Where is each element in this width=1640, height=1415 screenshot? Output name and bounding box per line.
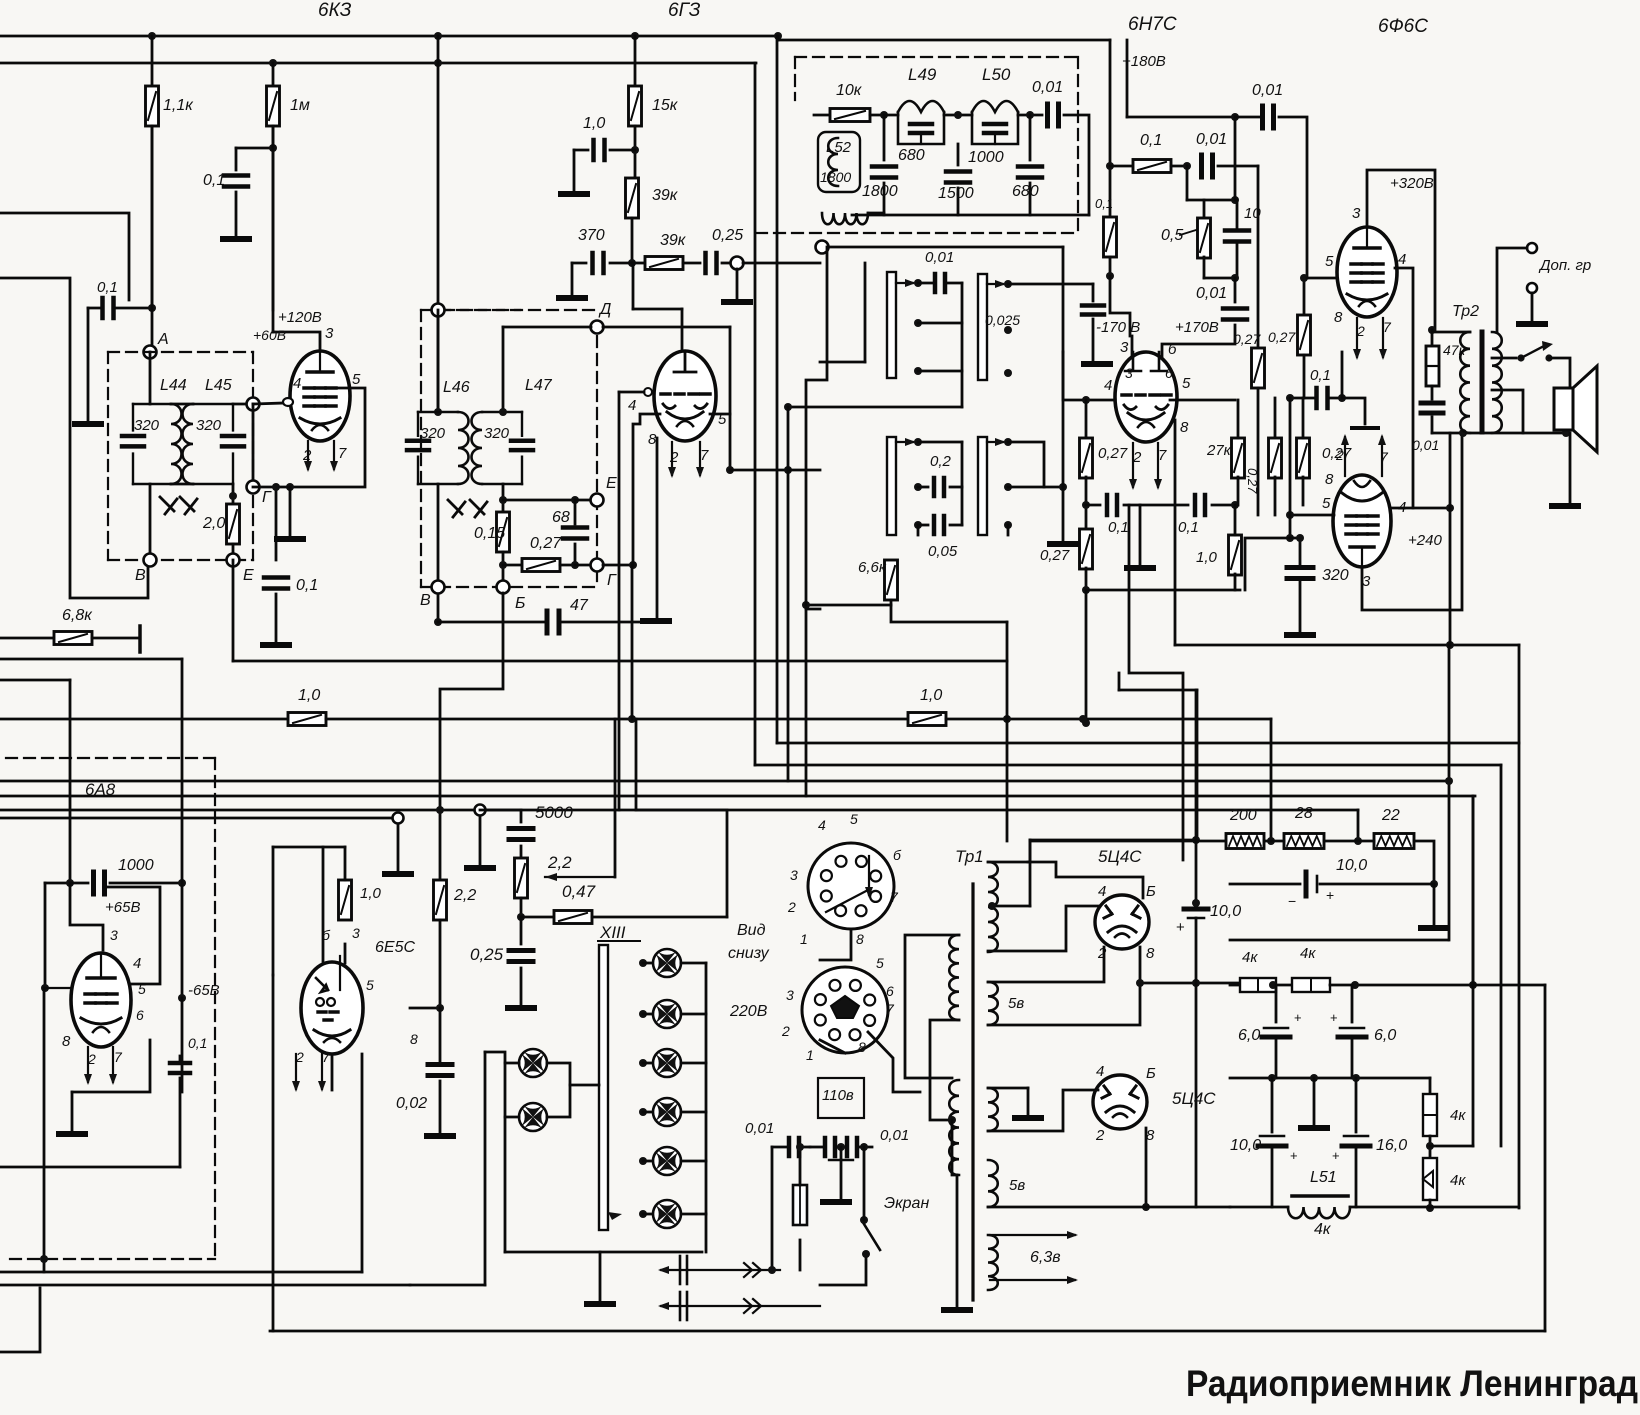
rectifier V9 5Ts4S lower [1093,1075,1147,1129]
node B2b [497,581,510,594]
cathode cap 320 [1287,568,1313,579]
svg-text:Г: Г [262,489,272,506]
capacitor 0,01 out [1018,114,1042,117]
svg-text:1м: 1м [290,97,310,114]
V9 anode wire and ground [988,1087,1028,1090]
cathode arrows V6 [84,1047,92,1085]
switch wafer 1b [978,274,987,380]
6E5S wires top [273,846,345,849]
V8 filament wires [988,947,1104,982]
long verticals bottom-left [43,988,46,1272]
tube 6F6S V5 lower (inverted) [1333,475,1391,567]
wire corner down to divider [1270,719,1273,841]
resistor 4k v1 [1429,1078,1432,1094]
node row y1078 [1230,1077,1430,1080]
svg-text:68: 68 [552,509,570,526]
svg-text:6Е5С: 6Е5С [375,939,415,956]
node G2 [591,559,604,572]
node A1 [151,126,154,352]
node V1 [149,484,152,560]
svg-text:8: 8 [1334,309,1343,326]
wire bottom stub [0,1288,40,1352]
wire +240 column [1446,504,1454,512]
svg-text:3: 3 [786,987,794,1003]
lower link wire [788,406,962,409]
dashed AF line [6,757,215,759]
svg-text:6,0: 6,0 [1374,1027,1396,1044]
electrolytic 10,0 h [1230,883,1300,886]
svg-text:+: + [1332,1148,1340,1163]
svg-text:5: 5 [1182,375,1191,392]
svg-text:4: 4 [133,955,141,972]
wire 22 down [1414,841,1434,884]
svg-text:L50: L50 [982,65,1011,84]
svg-text:Радиоприемник Ленинград: Радиоприемник Ленинград [1186,1363,1638,1404]
svg-text:200: 200 [1229,807,1257,824]
switch wafer 1a [887,272,896,378]
svg-text:5: 5 [352,371,361,388]
svg-text:+170В: +170В [1175,319,1219,336]
svg-text:Е: Е [606,475,617,492]
tube 6N7S V3 [1115,352,1177,442]
terminal node y810 [475,805,486,816]
svg-text:+: + [1294,1010,1302,1025]
rectifier V8 5Ts4S [1095,895,1149,949]
svg-text:+: + [1330,1010,1338,1025]
wire E1 down [232,560,235,661]
tube 6A8 V6 [71,953,131,1047]
connector plug upper [658,1266,780,1274]
wire y680 stub [0,679,70,682]
resistor 2,2 AF [434,880,447,920]
wire x182 column [181,659,184,998]
svg-text:4к: 4к [1450,1172,1466,1189]
wire G2 to detector line [603,564,633,567]
wire contact bottom [917,525,920,535]
svg-text:Б: Б [1146,1065,1156,1082]
svg-text:320: 320 [196,417,222,434]
svg-text:0,01: 0,01 [880,1127,909,1144]
wire y1008 stub [410,1007,440,1010]
svg-text:+240: +240 [1408,532,1442,549]
node junctions top bus [148,32,156,40]
svg-text:320: 320 [134,417,160,434]
trimmer arrows 2 [448,500,462,514]
svg-text:L47: L47 [525,377,553,394]
dashed divider vertical [214,758,216,1259]
svg-text:6: 6 [136,1007,144,1023]
bottom border line [270,1330,1545,1333]
svg-text:Г: Г [607,572,617,589]
bottom of lamp circuit [505,1251,702,1254]
wire fb left [1245,538,1290,590]
svg-text:3: 3 [110,927,118,943]
svg-text:1,0: 1,0 [298,687,320,704]
svg-text:0,01: 0,01 [1412,437,1439,453]
svg-text:8: 8 [856,931,864,947]
capacitor 0,01 tone [1431,386,1434,399]
resistor 6,8k antenna [0,637,54,640]
V8 anode wires [1030,839,1196,842]
svg-text:220В: 220В [729,1003,768,1020]
wire y659 stub [0,658,182,661]
svg-text:5Ц4С: 5Ц4С [1098,847,1142,866]
svg-text:Б: Б [515,595,525,612]
svg-text:0,01: 0,01 [1032,79,1063,96]
svg-text:5: 5 [850,811,858,827]
trimmer arrows [160,497,174,511]
svg-text:+: + [1176,919,1185,936]
svg-text:4к: 4к [1300,945,1316,962]
resistor 4k v2 [1429,1136,1432,1158]
cathode arrows V4 [1353,318,1361,360]
svg-text:6,0: 6,0 [1238,1027,1260,1044]
grid cap lead tube V5 [1342,398,1365,424]
svg-text:320: 320 [420,425,446,442]
capacitor 1000 [45,882,70,885]
wire left stub y213 [0,213,129,300]
svg-text:6Н7С: 6Н7С [1128,14,1177,35]
node D [591,321,604,334]
svg-text:Экран: Экран [884,1195,929,1212]
switch wafer 2a [887,437,896,535]
svg-text:2: 2 [1335,447,1344,463]
plate load wire pin5 [290,388,365,487]
svg-text:7: 7 [322,1049,331,1065]
capacitor 1800 [883,115,886,160]
grid wire 6N7S [1063,352,1115,400]
pair lamps left [519,1049,547,1077]
wire y590 row [1086,589,1240,592]
wire pin5 plate to x788 [730,469,788,472]
cathode bypass 0,1 [1086,504,1100,507]
dashed box IF transformer 1 [107,352,109,560]
svg-text:5: 5 [1322,495,1331,512]
wire D line [503,326,591,329]
cap 5000 [480,809,521,812]
coupling coil [822,213,868,224]
svg-text:8: 8 [1325,471,1334,488]
svg-text:15к: 15к [652,97,679,114]
svg-text:6: 6 [886,983,894,999]
svg-text:Тр2: Тр2 [1452,303,1479,320]
wire -170V step [1110,276,1130,336]
svg-text:2: 2 [1097,945,1107,962]
svg-text:3: 3 [352,925,360,941]
svg-text:1,1к: 1,1к [163,97,194,114]
capacitor 0,1 fb [1290,397,1316,400]
wire x70 column [69,680,72,883]
svg-text:В: В [420,592,431,609]
potentiometer 2,2 [515,858,528,898]
dashed box IF transformer 2 [420,310,422,587]
coil L47 tank [472,412,534,484]
B+ output wire [1140,982,1240,985]
wire x1342 from top [1341,352,1344,398]
cathode ground V1 [289,487,292,537]
svg-text:39к: 39к [660,232,687,249]
svg-text:680: 680 [898,147,925,164]
contact rows wafer1 [914,319,922,327]
wiper wafer1b [1004,280,1012,288]
svg-text:1000: 1000 [968,149,1004,166]
svg-text:0,01: 0,01 [925,249,954,266]
svg-text:3: 3 [1120,339,1129,356]
wire x45 grid [44,883,47,988]
svg-text:Е: Е [243,567,254,584]
svg-text:2,2: 2,2 [547,853,572,872]
capacitor 1500 [957,144,960,165]
svg-text:10,0: 10,0 [1336,857,1367,874]
resistor 1M [272,63,275,86]
additional speaker terminals [1527,243,1537,253]
svg-text:-170 В: -170 В [1096,319,1140,336]
lamp column feed wire [705,963,708,1214]
node E1 [227,554,240,567]
svg-text:7: 7 [1158,447,1167,464]
capacitor 1,0 screen [631,146,639,154]
svg-text:+120В: +120В [278,309,322,326]
wire line y781 [0,780,1448,783]
node G1 [252,404,255,487]
svg-text:4к: 4к [1314,1221,1332,1238]
svg-text:8: 8 [1146,945,1155,962]
ground mid [1062,487,1065,542]
osc box 6A8 [105,887,160,984]
svg-text:1800: 1800 [862,183,898,200]
grid wire V5 [1290,514,1334,517]
wire AF line y661 [233,660,1007,663]
svg-text:+60В: +60В [253,327,286,343]
svg-text:L51: L51 [1310,1169,1337,1186]
grid wire [253,403,284,404]
resistor 0,27 grid 6F6S-1 [1303,278,1306,315]
selector arrow socket1 [865,856,873,898]
step from 0,25 node [864,263,867,362]
svg-text:4: 4 [1096,1063,1104,1080]
capacitor 0,01 grid2 [1234,278,1237,302]
wire AVC bus top [0,35,778,38]
capacitor 370 [610,262,632,265]
Tr1 5V winding right [988,982,998,1025]
svg-text:4: 4 [1104,377,1112,394]
primary taps [905,935,959,1078]
svg-text:5: 5 [1325,253,1334,270]
svg-text:В: В [135,567,146,584]
capacitor 0,25 [706,253,717,273]
svg-text:+65В: +65В [105,899,140,916]
svg-text:7: 7 [1383,319,1392,335]
grid wire V4 [1307,277,1337,280]
svg-text:0,1: 0,1 [97,279,118,296]
tube 6E5S V7 [301,962,363,1054]
resistor 1,0 6E5S [344,880,347,904]
wiper arrow lamp6 [608,1212,622,1220]
V9 pin8 wire [1145,1128,1148,1207]
svg-text:б: б [893,847,902,863]
svg-text:7: 7 [338,445,347,462]
svg-text:2: 2 [669,449,679,466]
mains switch [860,1216,868,1224]
svg-text:1,0: 1,0 [920,687,942,704]
dashed box filter [795,56,1078,58]
svg-text:0,01: 0,01 [1196,131,1227,148]
svg-text:4: 4 [628,397,636,414]
svg-text:4к: 4к [1450,1107,1466,1124]
wire +180V column [1109,40,1112,217]
wire B2b down to AF [440,593,503,719]
resistor 0,15 [502,484,505,512]
wire screen bus [0,62,756,65]
resistor 39k horizontal [632,262,645,265]
resistor 1,0 cathode [1229,535,1242,575]
svg-text:L45: L45 [205,377,232,394]
plate supply wire +120V [273,332,320,351]
svg-text:4: 4 [293,375,301,392]
wire y690 right [1119,689,1197,692]
svg-text:Доп. гр: Доп. гр [1538,257,1591,274]
Tr1 6,3V winding [988,1235,998,1290]
svg-text:0,01: 0,01 [1252,82,1283,99]
cathode arrows V5 up [1341,434,1349,476]
svg-text:0,2: 0,2 [930,453,952,470]
svg-text:5в: 5в [1008,995,1024,1012]
divider resistors 200 28 22 [1030,840,1226,843]
svg-text:L49: L49 [908,65,937,84]
svg-text:Д: Д [598,301,611,318]
tube 6F6S V4 upper [1337,227,1397,317]
wire to E2 node [503,499,575,502]
svg-text:0,1: 0,1 [1178,519,1199,536]
connector plug lower [658,1302,820,1310]
resistors 0,27 pair right [1252,348,1265,388]
cathode ground 6A8 [71,1092,74,1132]
svg-text:3: 3 [790,867,798,883]
wire left stub y278 [0,278,148,598]
coil L45 tank 320 [183,404,245,484]
svg-text:0,1: 0,1 [1310,367,1331,384]
svg-text:1000: 1000 [118,857,154,874]
Tr1 5V winding 2 [988,1088,998,1131]
svg-text:1: 1 [806,1047,814,1063]
switch wire down [820,1258,866,1285]
capacitor 68 [574,500,577,524]
secondary top tap and switch [1492,357,1516,360]
electrolytic 16,0 [1355,1078,1358,1132]
osc section box below [816,241,829,254]
socket lower [802,967,888,1053]
grid lead 6G7 [644,388,652,396]
svg-text:320: 320 [484,425,510,442]
svg-text:6: 6 [1165,365,1173,381]
lamp box outline [485,1052,505,1063]
svg-text:0,47: 0,47 [562,882,596,901]
Tr1 primary left [949,935,959,1020]
resistor 47k tone [1431,330,1434,346]
svg-text:3: 3 [1125,365,1133,381]
plate wire V5 pin3 [1362,430,1462,610]
wire 6E5S column down [272,975,275,1331]
wire x440 AF chain [439,719,442,880]
svg-text:4: 4 [818,817,826,833]
svg-text:10,0: 10,0 [1210,903,1241,920]
cathode arrows V7 [292,1054,300,1092]
svg-text:0,27: 0,27 [1233,331,1261,347]
svg-text:0,02: 0,02 [396,1095,427,1112]
Tr1 core [971,884,974,1300]
svg-text:39к: 39к [652,187,679,204]
secondary bottom tap [1492,390,1523,433]
svg-text:1500: 1500 [938,185,974,202]
svg-text:7: 7 [890,889,899,905]
svg-text:0,15: 0,15 [474,525,505,542]
wire box top [777,36,780,40]
svg-text:0,1: 0,1 [1095,196,1113,211]
anode resistors 0,27 column [1085,400,1088,438]
svg-text:0,01: 0,01 [745,1120,774,1137]
cathode ground 6G7 [656,438,659,618]
node A2 [432,304,445,317]
cathode arrows V3 [1129,443,1137,490]
svg-text:+320В: +320В [1390,175,1434,192]
svg-text:2,2: 2,2 [453,887,476,904]
svg-text:1,0: 1,0 [583,115,605,132]
capacitor 0,02 [428,1065,452,1076]
resistor 39k [626,178,639,218]
svg-text:10к: 10к [836,82,863,99]
socket upper [808,843,894,929]
svg-text:0,27: 0,27 [1268,329,1296,345]
wire top y117 [1126,40,1129,117]
svg-text:6ГЗ: 6ГЗ [668,0,701,21]
svg-text:8: 8 [1180,419,1189,436]
wire line y796 [0,795,1475,798]
wire bottom-left y1285 [0,1284,410,1287]
wire 0,1 second [1140,504,1188,507]
svg-text:3: 3 [325,325,334,342]
capacitor 0,1 screen bypass [272,148,275,310]
diode plate 4 chain [633,414,660,565]
svg-text:0,27: 0,27 [530,535,562,552]
filter box bottom [1230,939,1448,942]
Tr1 wires to rectifier 1 [988,840,1030,862]
electrolytic 10,0 low [1271,1078,1274,1132]
svg-text:5Ц4С: 5Ц4С [1172,1089,1216,1108]
pot wiper arrow [545,876,615,878]
wire line y719 with 1,0 resistors [0,718,288,721]
svg-text:2: 2 [781,1023,790,1039]
svg-text:2: 2 [1095,1127,1105,1144]
wire plate supply 6A8 [70,883,103,950]
svg-text:6,8к: 6,8к [62,607,93,624]
cathode arrows tube V1 [304,441,312,472]
wire to box corner [891,605,1007,622]
svg-text:0,27: 0,27 [1040,547,1070,564]
svg-text:0,025: 0,025 [985,312,1020,328]
resistors 0,27 pair V5 grid [1274,398,1277,438]
Tr1 HV winding right top [988,862,998,952]
resistor 0,1 vertical [1106,162,1114,170]
wire x1086 down [1085,590,1088,723]
svg-text:0,27: 0,27 [1098,445,1128,462]
socket1 wires [820,929,851,960]
svg-text:Вид: Вид [737,922,766,939]
svg-text:7: 7 [114,1049,123,1065]
box lower switch [806,247,827,605]
svg-text:0,05: 0,05 [928,543,958,560]
svg-text:110в: 110в [822,1087,854,1104]
svg-text:6,3в: 6,3в [1030,1249,1061,1266]
